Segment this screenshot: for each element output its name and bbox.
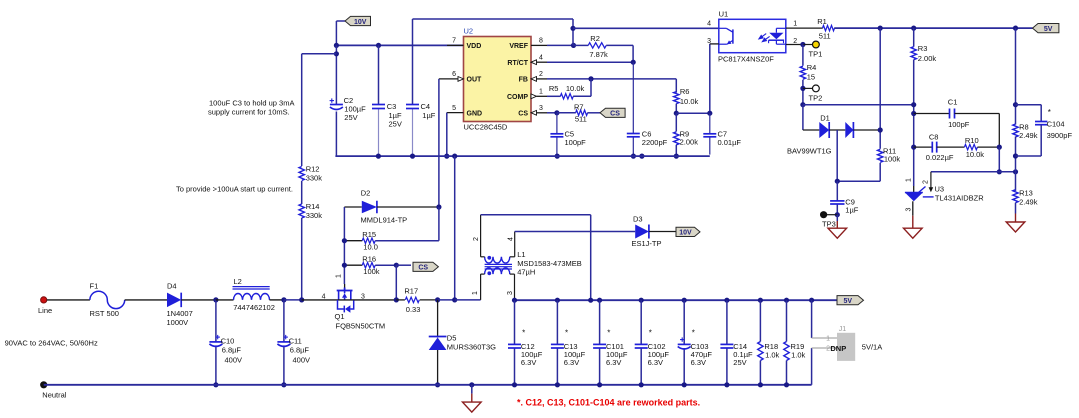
capacitor C6 — [627, 133, 640, 135]
resistor R4 — [800, 66, 805, 79]
wire top rail to U1 pin4 — [573, 27, 719, 29]
svg-text:TP1: TP1 — [809, 50, 823, 59]
svg-text:2.00k: 2.00k — [918, 54, 937, 63]
node VDD-C2 — [334, 43, 339, 48]
node C7 top — [707, 111, 712, 116]
svg-text:3: 3 — [507, 291, 514, 295]
node C103 top — [682, 298, 687, 303]
wire C14 column — [726, 300, 728, 344]
wire U3 ref column — [913, 186, 915, 193]
wire VREF riser x=573 — [572, 19, 574, 45]
svg-text:1.0k: 1.0k — [791, 351, 805, 360]
svg-text:4: 4 — [508, 237, 515, 241]
U1 light arrows — [759, 34, 784, 44]
wire R6 to node — [675, 104, 677, 114]
svg-text:MSD1583-473MEB: MSD1583-473MEB — [517, 259, 582, 268]
svg-text:100uF C3 to hold up 3mA: 100uF C3 to hold up 3mA — [209, 99, 294, 108]
svg-text:D5: D5 — [447, 333, 457, 342]
svg-text:3900pF: 3900pF — [1047, 131, 1073, 140]
wire F1 to D4 — [125, 299, 167, 301]
svg-text:330k: 330k — [306, 174, 323, 183]
svg-text:R6: R6 — [680, 87, 690, 96]
svg-text:C10: C10 — [221, 337, 235, 346]
svg-text:CS: CS — [418, 265, 428, 272]
wire control ground rail y=156 — [335, 155, 709, 157]
L1 pin3 lead — [510, 273, 515, 275]
wire VDD rail y=45 — [336, 44, 463, 46]
svg-text:CS: CS — [518, 111, 528, 118]
capacitor C10 — [216, 336, 220, 338]
diode D2 — [344, 206, 361, 208]
node R3 top — [911, 26, 916, 31]
Q1 channel rail — [337, 299, 354, 301]
node R14 rail — [299, 297, 304, 302]
U1 pin1 stub — [786, 27, 823, 29]
svg-text:2: 2 — [793, 38, 797, 45]
node C101 gnd — [597, 382, 602, 387]
node R19 top — [784, 298, 789, 303]
resistor R11 — [878, 149, 883, 162]
node C9 top — [835, 179, 840, 184]
wire R3 to node — [913, 60, 915, 186]
ground symbol primary — [469, 382, 474, 387]
resistor R19 — [786, 300, 788, 341]
node gnddrop rail — [452, 154, 457, 159]
svg-text:0.022µF: 0.022µF — [926, 153, 954, 162]
resistor R1 — [823, 25, 835, 30]
node R16-CS tap — [394, 263, 399, 268]
wire opto to R3 node — [803, 104, 914, 106]
wire Line to F1 — [47, 299, 90, 301]
testpoint TP3 — [825, 214, 837, 216]
svg-text:GND: GND — [467, 111, 483, 118]
svg-text:6.3V: 6.3V — [606, 358, 621, 367]
terminal Line — [41, 297, 47, 303]
svg-text:D3: D3 — [633, 215, 643, 224]
node pin2-TP1 — [800, 42, 805, 47]
svg-text:PC817X4NSZ0F: PC817X4NSZ0F — [718, 55, 774, 64]
capacitor C11 — [284, 336, 288, 338]
node C12 gnd — [512, 382, 517, 387]
node C3 rail — [376, 154, 381, 159]
svg-text:1000V: 1000V — [167, 318, 189, 327]
svg-text:100k: 100k — [363, 267, 380, 276]
wire to gnd-drop node — [438, 299, 455, 301]
U1 pin3 stub — [710, 43, 719, 45]
svg-text:DNP: DNP — [830, 344, 846, 353]
wire to L1 pin1 — [455, 299, 481, 301]
capacitor C8 branch — [914, 146, 933, 148]
svg-text:4: 4 — [707, 21, 711, 28]
wire C102 column — [640, 300, 642, 344]
svg-text:MMDL914-TP: MMDL914-TP — [361, 216, 408, 225]
net flag 10V (VDD supply) — [336, 20, 345, 22]
svg-text:R14: R14 — [306, 202, 320, 211]
svg-text:R10: R10 — [965, 136, 979, 145]
capacitor C5 — [550, 133, 563, 135]
svg-text:MURS360T3G: MURS360T3G — [447, 343, 496, 352]
wire CS pin3 — [537, 112, 548, 114]
svg-text:*: * — [607, 329, 610, 338]
svg-text:L1: L1 — [517, 250, 525, 259]
wire C9 column — [836, 181, 838, 201]
svg-text:TP2: TP2 — [809, 93, 823, 102]
node C2 to R12 tap — [334, 51, 339, 56]
node R19 gnd — [784, 382, 789, 387]
node loop return — [588, 298, 593, 303]
wire to CS flag — [396, 264, 411, 266]
svg-text:C3: C3 — [387, 102, 397, 111]
svg-text:0.33: 0.33 — [406, 305, 421, 314]
svg-text:2: 2 — [539, 71, 543, 78]
node D2-OUT — [436, 204, 441, 209]
net flag 5V top — [1033, 24, 1059, 33]
wire R4 to TP2 — [802, 80, 804, 105]
wire R16 tap down — [395, 265, 397, 300]
svg-text:1µF: 1µF — [845, 205, 858, 214]
resistor R15 — [344, 240, 362, 242]
node J1 top — [809, 298, 814, 303]
resistor R13 — [1013, 190, 1018, 203]
pin6 OUT stub — [439, 78, 458, 80]
svg-text:1: 1 — [539, 88, 543, 95]
svg-text:5V: 5V — [1044, 26, 1053, 33]
wire to R12 column — [302, 53, 337, 55]
Q1 body diode loop — [338, 300, 344, 309]
svg-text:R13: R13 — [1019, 189, 1033, 198]
wire OUT to R15 — [438, 207, 440, 241]
diode D1 first — [819, 122, 829, 138]
svg-text:TP3: TP3 — [822, 219, 836, 228]
L1 pin1 lead — [481, 273, 485, 275]
wire 10V to C4 top rail y=19 — [413, 18, 574, 20]
transistor U3 TL431AIDBZR — [905, 193, 923, 202]
svg-text:RST 500: RST 500 — [90, 309, 119, 318]
svg-text:7447462102: 7447462102 — [233, 303, 275, 312]
inductor L2 — [234, 294, 270, 300]
wire C101 column — [599, 300, 601, 344]
svg-text:2.49k: 2.49k — [1019, 131, 1038, 140]
svg-text:R17: R17 — [404, 287, 418, 296]
node top rail tap — [570, 26, 575, 31]
node C102 gnd — [639, 382, 644, 387]
wire node to C7 — [676, 112, 710, 114]
net flag 10V at D3 — [676, 227, 700, 236]
svg-text:15: 15 — [807, 72, 815, 81]
svg-text:330k: 330k — [306, 211, 323, 220]
svg-text:10V: 10V — [679, 230, 692, 237]
node R6-R9-C7 — [674, 111, 679, 116]
svg-text:supply current for 10mS.: supply current for 10mS. — [208, 108, 290, 117]
wire OUT column — [438, 79, 440, 207]
node R9 rail — [674, 154, 679, 159]
svg-text:U2: U2 — [464, 27, 474, 36]
svg-text:Line: Line — [38, 306, 52, 315]
net flag CS at R16 — [413, 262, 438, 271]
node FB-R5 — [588, 76, 593, 81]
node extra rail dot — [639, 154, 644, 159]
svg-text:*: * — [565, 329, 568, 338]
L1 pin2 lead — [481, 256, 485, 258]
svg-text:1N4007: 1N4007 — [167, 309, 193, 318]
svg-text:C1: C1 — [948, 97, 958, 106]
svg-text:D4: D4 — [167, 282, 177, 291]
node C11 gnd — [281, 382, 286, 387]
wire D4 to C10 node — [181, 299, 216, 301]
svg-text:6: 6 — [452, 71, 456, 78]
wire R13 to ground — [1015, 203, 1017, 214]
ground symbol U3 — [904, 228, 923, 238]
svg-text:1.0k: 1.0k — [765, 351, 779, 360]
U1 phototransistor — [732, 29, 734, 43]
node C103 gnd — [682, 382, 687, 387]
node C6 rail — [631, 154, 636, 159]
wire gate column — [343, 207, 345, 284]
net flag 5V output — [837, 296, 864, 305]
node C8 tap — [911, 145, 916, 150]
svg-text:1: 1 — [472, 291, 479, 295]
wire ground rail — [44, 384, 812, 386]
wire C11node to R14 node — [284, 299, 302, 301]
svg-text:4: 4 — [539, 54, 543, 61]
capacitor C14 — [720, 343, 733, 345]
resistor R6 — [674, 92, 679, 104]
svg-text:3: 3 — [539, 105, 543, 112]
wire R2 down to RT/CT — [632, 45, 634, 62]
capacitor C103 — [680, 339, 684, 341]
svg-text:VDD: VDD — [467, 43, 482, 50]
wire R11 to C9 node — [879, 163, 881, 181]
node R18 top — [758, 298, 763, 303]
svg-text:FB: FB — [519, 77, 528, 84]
node TP2 — [800, 86, 805, 91]
svg-text:Neutral: Neutral — [42, 391, 67, 400]
svg-text:10V: 10V — [354, 19, 367, 26]
wire to Q1 drain — [302, 299, 337, 301]
svg-text:1: 1 — [336, 274, 343, 278]
node C1 tap — [911, 111, 916, 116]
wire C10 column — [215, 300, 217, 342]
wire R9 to rail — [675, 145, 677, 156]
svg-text:7: 7 — [452, 38, 456, 45]
capacitor C2 — [330, 100, 334, 102]
svg-text:R3: R3 — [918, 44, 928, 53]
capacitor C13 — [551, 343, 564, 345]
wire C103 column — [683, 300, 685, 344]
node R8-C104 top — [1013, 102, 1018, 107]
svg-text:6.3V: 6.3V — [564, 358, 579, 367]
ground symbol C9 — [828, 228, 847, 238]
node C14 gnd — [724, 382, 729, 387]
svg-text:511: 511 — [575, 114, 587, 123]
connector J1 — [811, 300, 813, 338]
fuse F1 — [90, 291, 125, 308]
wire 10V flag drop — [335, 21, 337, 45]
node C11 top — [281, 297, 286, 302]
resistor R2 — [574, 44, 589, 46]
svg-text:2: 2 — [473, 237, 480, 241]
svg-text:L2: L2 — [234, 277, 242, 286]
node C14 top — [724, 298, 729, 303]
wire C12 column — [514, 300, 516, 344]
node D5 gnd — [435, 382, 440, 387]
wire VREF pin8 — [531, 44, 547, 46]
svg-text:2.00k: 2.00k — [680, 138, 699, 147]
ground symbol R13 — [1006, 222, 1025, 232]
wire R6 drop — [675, 79, 677, 93]
svg-text:D1: D1 — [820, 113, 830, 122]
node L1 pin3 — [512, 298, 517, 303]
node pin2 net — [997, 169, 1002, 174]
svg-text:100k: 100k — [884, 155, 901, 164]
svg-text:6.3V: 6.3V — [521, 358, 536, 367]
capacitor C12 — [508, 343, 521, 345]
wire pin2 net — [931, 171, 1016, 173]
wire C7 column — [709, 44, 711, 113]
svg-text:CS: CS — [610, 111, 620, 118]
node RT/CT — [631, 60, 636, 65]
resistor R16 — [344, 264, 362, 266]
node C13 gnd — [555, 382, 560, 387]
wire D1 to R11 — [853, 129, 880, 131]
svg-text:25V: 25V — [389, 119, 402, 128]
node source-R16 — [394, 297, 399, 302]
diode D5 — [437, 300, 439, 338]
U1 LED — [769, 33, 783, 40]
svg-text:1: 1 — [906, 178, 913, 182]
svg-text:6.3V: 6.3V — [648, 358, 663, 367]
node C102 top — [639, 298, 644, 303]
svg-text:90VAC to 264VAC, 50/60Hz: 90VAC to 264VAC, 50/60Hz — [5, 339, 98, 348]
node C10 top — [213, 297, 218, 302]
svg-text:4: 4 — [322, 294, 326, 301]
node GND rail — [444, 154, 449, 159]
svg-text:OUT: OUT — [467, 77, 483, 84]
svg-text:C11: C11 — [289, 337, 302, 346]
svg-text:2200pF: 2200pF — [642, 138, 668, 147]
svg-text:C104: C104 — [1047, 120, 1065, 129]
wire down to U3 pin2 net — [998, 147, 1000, 172]
diode D3 — [635, 225, 649, 239]
net flag CS at R7 — [600, 108, 625, 117]
node C101 top — [597, 298, 602, 303]
capacitor C102 — [635, 343, 648, 345]
node gate-R16 — [342, 263, 347, 268]
testpoint TP2 — [803, 87, 813, 89]
node TP3 — [835, 212, 840, 217]
wire R3 column — [913, 28, 915, 47]
node CS-C5 — [554, 110, 559, 115]
wire GND down — [446, 113, 448, 157]
svg-text:*. C12, C13, C101-C104 are rew: *. C12, C13, C101-C104 are reworked part… — [517, 398, 700, 408]
wire pin2 loop — [481, 214, 591, 216]
svg-text:10.0k: 10.0k — [680, 97, 699, 106]
svg-text:R1: R1 — [817, 17, 827, 26]
svg-text:TL431AIDBZR: TL431AIDBZR — [935, 193, 984, 202]
svg-text:1: 1 — [826, 336, 830, 343]
capacitor C4 — [406, 104, 419, 106]
pin7 stub — [447, 44, 464, 46]
svg-text:C4: C4 — [421, 102, 431, 111]
svg-text:25V: 25V — [344, 113, 357, 122]
wire C10node to L2 — [216, 299, 234, 301]
svg-text:25V: 25V — [733, 358, 746, 367]
U1 pin2 stub — [786, 44, 803, 46]
svg-text:1: 1 — [793, 21, 797, 28]
svg-text:To provide >100uA start up cur: To provide >100uA start up current. — [176, 185, 293, 194]
U2 pin arrows — [458, 77, 464, 82]
testpoint TP1 — [803, 44, 813, 46]
svg-text:400V: 400V — [293, 356, 311, 365]
svg-text:R12: R12 — [306, 165, 320, 174]
svg-text:*: * — [1048, 108, 1051, 117]
svg-text:47µH: 47µH — [517, 268, 535, 277]
capacitor C1 branch — [914, 113, 950, 115]
wire R8 bottom — [1015, 137, 1017, 191]
svg-text:R8: R8 — [1019, 122, 1029, 131]
node VREF — [571, 43, 576, 48]
svg-text:100pF: 100pF — [565, 138, 587, 147]
op-amp U2 UCC28C45D body — [464, 37, 532, 122]
resistor R17 — [396, 299, 405, 301]
wire FB pin2 — [537, 78, 548, 80]
node D1-R11 — [878, 127, 883, 132]
op-amp U1 PC817X4NSZ0F body — [719, 19, 786, 52]
diode D4 — [167, 293, 181, 308]
resistor R3 — [911, 47, 916, 60]
node C8-R10-C1 — [997, 145, 1002, 150]
wire C13 column — [556, 300, 558, 344]
capacitor C9 — [830, 200, 844, 202]
resistor R12 — [299, 167, 304, 181]
wire output 5V rail — [515, 299, 838, 301]
svg-text:R5: R5 — [549, 84, 559, 93]
capacitor C3 — [372, 104, 385, 106]
node R8 top — [1013, 26, 1018, 31]
node divider mid — [1013, 169, 1018, 174]
svg-text:0.01µF: 0.01µF — [718, 138, 742, 147]
wire C2 branch — [335, 45, 337, 104]
svg-text:5V/1A: 5V/1A — [862, 343, 882, 352]
wire R14 to AC rail — [301, 218, 303, 300]
wire C4 column — [412, 19, 414, 105]
terminal Neutral — [41, 382, 47, 388]
wire R11 column — [879, 28, 881, 149]
node C3 top — [376, 43, 381, 48]
node C104 bottom — [1013, 153, 1018, 158]
svg-text:100pF: 100pF — [948, 120, 970, 129]
pin5 GND stub — [447, 112, 464, 114]
svg-text:10.0: 10.0 — [363, 243, 378, 252]
svg-text:*: * — [692, 329, 695, 338]
resistor R14 — [299, 204, 304, 218]
wire RT/CT pin4 — [537, 61, 548, 63]
wire D1 center tap — [836, 130, 838, 181]
svg-text:6.8µF: 6.8µF — [222, 345, 242, 354]
svg-text:2: 2 — [923, 180, 930, 184]
resistor R9 — [675, 113, 677, 131]
svg-text:400V: 400V — [225, 356, 243, 365]
svg-text:8: 8 — [539, 38, 543, 45]
resistor R10 — [964, 144, 977, 149]
svg-text:BAV99WT1G: BAV99WT1G — [787, 147, 832, 156]
L1 pin4 lead — [510, 256, 515, 258]
diode D1 second — [845, 122, 853, 138]
svg-text:7.87k: 7.87k — [589, 50, 608, 59]
wire C3 column — [378, 45, 380, 104]
svg-text:10.0k: 10.0k — [566, 84, 585, 93]
svg-text:D2: D2 — [361, 189, 371, 198]
